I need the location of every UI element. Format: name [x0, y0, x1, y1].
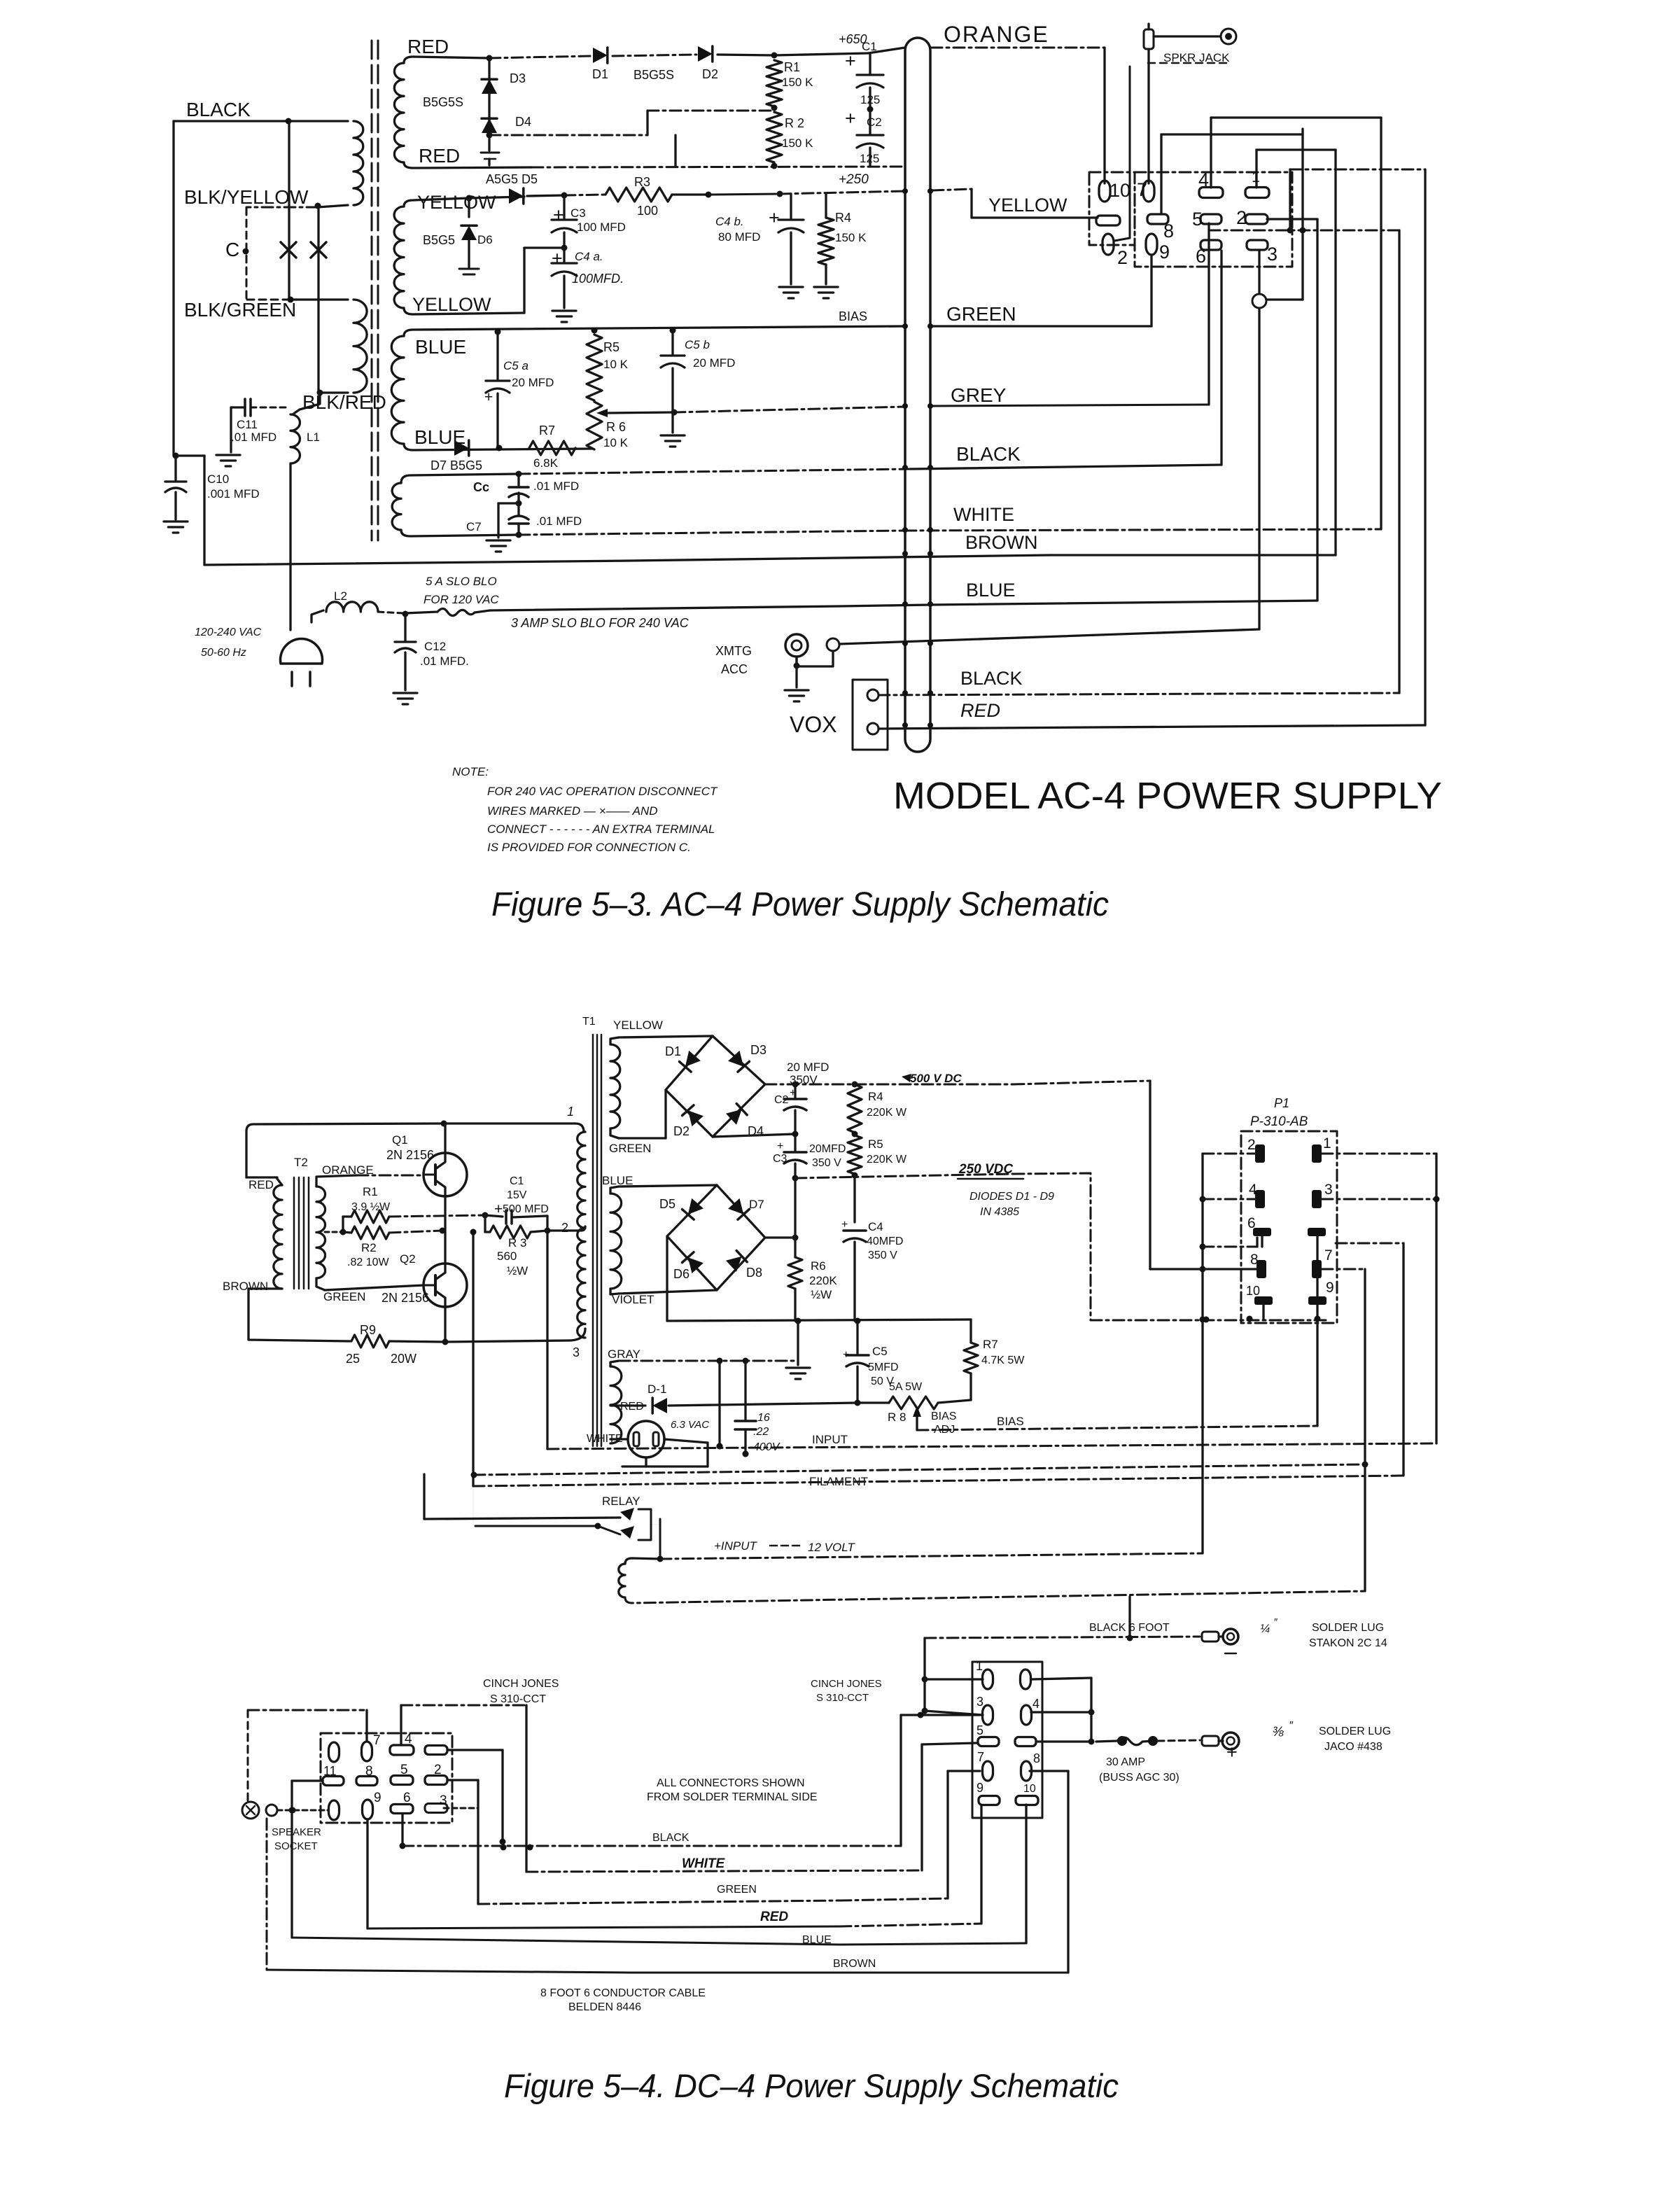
- svg-text:7: 7: [373, 1733, 381, 1748]
- svg-text:R3: R3: [634, 175, 650, 189]
- svg-text:BLUE: BLUE: [415, 336, 466, 358]
- svg-text:+250: +250: [839, 172, 869, 187]
- svg-text:220K W: 220K W: [867, 1154, 907, 1165]
- svg-text:C1: C1: [510, 1175, 524, 1187]
- svg-text:YELLOW: YELLOW: [412, 294, 491, 315]
- svg-text:8 FOOT 6 CONDUCTOR CABLE: 8 FOOT 6 CONDUCTOR CABLE: [540, 1987, 706, 1999]
- svg-text:1: 1: [1252, 169, 1260, 185]
- svg-text:SOLDER LUG: SOLDER LUG: [1312, 1622, 1384, 1634]
- svg-text:BLUE: BLUE: [966, 580, 1016, 601]
- svg-text:½W: ½W: [507, 1264, 528, 1277]
- svg-text:RED: RED: [248, 1178, 274, 1191]
- svg-text:3: 3: [440, 1793, 447, 1808]
- svg-text:.22: .22: [753, 1426, 769, 1438]
- svg-text:BELDEN 8446: BELDEN 8446: [568, 2001, 641, 2013]
- svg-text:R1: R1: [363, 1185, 378, 1198]
- svg-text:10 K: 10 K: [603, 358, 629, 371]
- svg-text:5: 5: [1192, 209, 1203, 230]
- svg-text:2: 2: [1236, 207, 1247, 228]
- svg-text:125: 125: [860, 93, 880, 106]
- svg-text:YELLOW: YELLOW: [417, 192, 496, 213]
- svg-text:3: 3: [976, 1695, 983, 1709]
- svg-text:R7: R7: [983, 1338, 998, 1351]
- svg-text:R1: R1: [784, 60, 800, 74]
- svg-text:RED: RED: [960, 700, 1000, 721]
- svg-text:R 6: R 6: [606, 420, 626, 434]
- svg-text:80 MFD: 80 MFD: [718, 230, 760, 244]
- svg-text:BLACK 6 FOOT: BLACK 6 FOOT: [1089, 1622, 1170, 1634]
- svg-text:IN 4385: IN 4385: [980, 1206, 1019, 1218]
- svg-text:350V: 350V: [790, 1073, 818, 1086]
- svg-text:D6: D6: [673, 1267, 689, 1281]
- svg-text:NOTE:: NOTE:: [452, 765, 489, 778]
- svg-text:½W: ½W: [811, 1288, 832, 1301]
- svg-text:1: 1: [1323, 1135, 1331, 1151]
- svg-text:6: 6: [1196, 246, 1206, 267]
- svg-text:D7: D7: [749, 1198, 764, 1211]
- svg-text:150 K: 150 K: [782, 76, 813, 89]
- svg-text:3: 3: [1324, 1182, 1333, 1198]
- svg-text:C3: C3: [570, 206, 586, 220]
- svg-text:T2: T2: [294, 1156, 308, 1169]
- svg-text:C4: C4: [868, 1220, 883, 1233]
- svg-text:D4: D4: [515, 115, 531, 129]
- svg-text:.82 10W: .82 10W: [347, 1256, 389, 1268]
- svg-text:RED: RED: [760, 1910, 788, 1924]
- svg-text:R7: R7: [539, 423, 555, 437]
- svg-text:16: 16: [757, 1412, 770, 1424]
- svg-text:XMTG: XMTG: [715, 644, 752, 658]
- svg-text:BROWN: BROWN: [833, 1958, 876, 1970]
- svg-text:9: 9: [374, 1791, 381, 1805]
- svg-text:7: 7: [1137, 179, 1147, 200]
- svg-text:B5G5: B5G5: [423, 233, 455, 247]
- svg-text:BLACK: BLACK: [960, 668, 1023, 689]
- svg-text:BROWN: BROWN: [965, 532, 1038, 553]
- svg-text:R2: R2: [361, 1241, 377, 1254]
- svg-text:125: 125: [860, 152, 879, 165]
- svg-text:T1: T1: [582, 1016, 596, 1028]
- svg-text:1: 1: [976, 1659, 983, 1673]
- svg-text:BLUE: BLUE: [802, 1934, 832, 1946]
- svg-text:+INPUT: +INPUT: [714, 1539, 758, 1553]
- svg-text:5A 5W: 5A 5W: [889, 1381, 923, 1393]
- svg-text:R4: R4: [868, 1090, 883, 1103]
- svg-text:R4: R4: [835, 211, 851, 225]
- svg-text:500 V DC: 500 V DC: [910, 1072, 962, 1085]
- svg-text:GREEN: GREEN: [717, 1884, 757, 1896]
- svg-text:2N 2156: 2N 2156: [386, 1148, 434, 1162]
- svg-text:C5 b: C5 b: [685, 338, 710, 351]
- svg-text:VIOLET: VIOLET: [612, 1293, 654, 1306]
- svg-text:D5: D5: [659, 1197, 675, 1211]
- svg-text:20MFD: 20MFD: [809, 1143, 846, 1155]
- svg-text:RED: RED: [407, 36, 449, 57]
- svg-text:4: 4: [1198, 169, 1209, 190]
- svg-text:R 8: R 8: [888, 1410, 906, 1424]
- svg-text:¼: ¼: [1260, 1622, 1270, 1635]
- svg-text:.01 MFD: .01 MFD: [533, 479, 579, 493]
- svg-text:R5: R5: [603, 340, 619, 354]
- svg-text:20 MFD: 20 MFD: [787, 1060, 829, 1074]
- svg-text:P1: P1: [1274, 1096, 1289, 1110]
- svg-text:3.9 ½W: 3.9 ½W: [351, 1201, 391, 1213]
- svg-text:RELAY: RELAY: [602, 1494, 640, 1508]
- svg-text:GREY: GREY: [951, 384, 1007, 406]
- svg-text:S 310-CCT: S 310-CCT: [490, 1693, 546, 1705]
- svg-text:SOCKET: SOCKET: [274, 1840, 318, 1852]
- svg-text:20 MFD: 20 MFD: [693, 356, 735, 370]
- svg-text:.01 MFD: .01 MFD: [231, 430, 276, 444]
- svg-text:CINCH JONES: CINCH JONES: [811, 1678, 882, 1690]
- svg-text:ALL CONNECTORS SHOWN: ALL CONNECTORS SHOWN: [657, 1777, 805, 1789]
- svg-text:CINCH JONES: CINCH JONES: [483, 1678, 559, 1690]
- svg-text:D7 B5G5: D7 B5G5: [430, 458, 482, 472]
- svg-text:9: 9: [976, 1781, 983, 1795]
- svg-text:R6: R6: [811, 1259, 826, 1273]
- svg-text:.001 MFD: .001 MFD: [207, 487, 260, 500]
- svg-text:L2: L2: [334, 589, 347, 603]
- svg-text:4: 4: [1249, 1182, 1257, 1198]
- svg-text:ORANGE: ORANGE: [944, 22, 1049, 47]
- svg-text:6.3 VAC: 6.3 VAC: [671, 1419, 709, 1431]
- svg-text:250 VDC: 250 VDC: [958, 1162, 1013, 1177]
- svg-text:4: 4: [1032, 1697, 1039, 1711]
- svg-text:1: 1: [567, 1105, 574, 1119]
- svg-text:8: 8: [1163, 220, 1174, 241]
- svg-text:15V: 15V: [507, 1189, 527, 1201]
- svg-text:2: 2: [561, 1221, 568, 1235]
- svg-text:SOLDER LUG: SOLDER LUG: [1319, 1725, 1391, 1737]
- svg-text:BROWN: BROWN: [223, 1280, 268, 1293]
- svg-text:+: +: [841, 1219, 848, 1231]
- svg-text:+: +: [552, 248, 563, 269]
- svg-text:C4 a.: C4 a.: [575, 250, 603, 263]
- svg-text:10: 10: [1023, 1783, 1036, 1795]
- svg-text:350 V: 350 V: [812, 1157, 841, 1169]
- svg-text:″: ″: [1274, 1616, 1278, 1628]
- svg-text:INPUT: INPUT: [812, 1433, 848, 1446]
- svg-text:+: +: [845, 108, 856, 129]
- svg-text:D2: D2: [673, 1124, 689, 1138]
- svg-text:R9: R9: [360, 1323, 376, 1337]
- svg-text:C2: C2: [867, 115, 882, 129]
- svg-text:9: 9: [1159, 241, 1170, 262]
- svg-text:R 2: R 2: [785, 116, 804, 130]
- svg-text:8: 8: [1033, 1751, 1040, 1765]
- svg-text:+: +: [484, 389, 493, 405]
- svg-text:6: 6: [403, 1791, 411, 1805]
- svg-text:11: 11: [323, 1764, 337, 1778]
- svg-text:500 MFD: 500 MFD: [503, 1203, 549, 1215]
- svg-text:BLUE: BLUE: [602, 1174, 633, 1187]
- svg-text:YELLOW: YELLOW: [988, 195, 1067, 216]
- svg-text:560: 560: [497, 1249, 517, 1263]
- svg-text:(BUSS AGC 30): (BUSS AGC 30): [1099, 1772, 1179, 1784]
- svg-text:SPEAKER: SPEAKER: [272, 1826, 321, 1838]
- svg-text:+: +: [1226, 1742, 1238, 1763]
- svg-text:220K: 220K: [809, 1274, 837, 1287]
- svg-text:B5G5S: B5G5S: [423, 95, 463, 109]
- svg-text:B5G5S: B5G5S: [633, 68, 674, 82]
- svg-text:FOR 240 VAC OPERATION DISC: FOR 240 VAC OPERATION DISCONNECT: [487, 785, 718, 798]
- svg-text:3 AMP SLO BLO FOR 240 VA: 3 AMP SLO BLO FOR 240 VAC: [511, 616, 689, 630]
- svg-text:BIAS: BIAS: [997, 1415, 1024, 1428]
- svg-text:C10: C10: [207, 472, 229, 486]
- svg-text:WHITE: WHITE: [682, 1856, 726, 1871]
- svg-text:BLACK: BLACK: [186, 99, 251, 120]
- svg-text:CONNECT - - - - - - AN EXTRA: CONNECT - - - - - - AN EXTRA TERMINAL: [487, 822, 715, 836]
- svg-text:R 3: R 3: [508, 1236, 526, 1249]
- svg-text:A5G5 D5: A5G5 D5: [486, 172, 538, 186]
- svg-text:7: 7: [1324, 1247, 1333, 1263]
- svg-text:5: 5: [976, 1723, 983, 1737]
- svg-text:100: 100: [637, 204, 658, 218]
- svg-text:R5: R5: [868, 1137, 883, 1151]
- svg-text:C4 b.: C4 b.: [715, 215, 744, 228]
- svg-text:+650: +650: [839, 32, 867, 46]
- svg-text:L1: L1: [307, 430, 320, 444]
- svg-text:DIODES D1 - D9: DIODES D1 - D9: [969, 1191, 1054, 1203]
- svg-text:D3: D3: [510, 71, 526, 85]
- svg-text:Q1: Q1: [392, 1133, 408, 1147]
- svg-text:P-310-AB: P-310-AB: [1250, 1114, 1308, 1129]
- svg-text:MODEL AC-4 POWER SUPPLY: MODEL AC-4 POWER SUPPLY: [893, 775, 1442, 817]
- svg-text:5 A SLO BLO: 5 A SLO BLO: [426, 575, 497, 588]
- svg-text:6: 6: [1247, 1215, 1256, 1231]
- svg-text:2: 2: [434, 1763, 442, 1777]
- svg-text:Q2: Q2: [400, 1252, 416, 1266]
- svg-text:100 MFD: 100 MFD: [577, 220, 626, 234]
- svg-text:C5 a: C5 a: [503, 359, 528, 372]
- svg-text:2: 2: [1117, 247, 1128, 268]
- svg-text:150 K: 150 K: [835, 231, 867, 244]
- svg-text:″: ″: [1289, 1720, 1294, 1732]
- svg-text:40MFD: 40MFD: [867, 1235, 903, 1247]
- svg-text:12 VOLT: 12 VOLT: [808, 1541, 855, 1554]
- svg-text:50-60 Hz: 50-60 Hz: [201, 647, 246, 659]
- svg-text:6.8K: 6.8K: [533, 456, 559, 470]
- svg-text:WHITE: WHITE: [953, 504, 1014, 525]
- svg-text:D1: D1: [665, 1044, 681, 1058]
- svg-text:D-1: D-1: [647, 1382, 666, 1396]
- svg-text:RED: RED: [419, 145, 460, 167]
- svg-text:JACO #438: JACO #438: [1324, 1741, 1382, 1753]
- svg-text:25: 25: [346, 1352, 360, 1366]
- svg-text:8: 8: [1250, 1252, 1259, 1268]
- svg-text:FROM SOLDER TERMINAL SIDE: FROM SOLDER TERMINAL SIDE: [647, 1791, 818, 1803]
- svg-text:IS PROVIDED FOR CONNECTION: IS PROVIDED FOR CONNECTION C.: [487, 841, 691, 854]
- svg-text:WIRES MARKED — ×—— AND: WIRES MARKED — ×—— AND: [487, 804, 658, 818]
- svg-text:GREEN: GREEN: [609, 1142, 651, 1155]
- svg-text:10 K: 10 K: [603, 436, 629, 449]
- svg-text:5MFD: 5MFD: [868, 1361, 899, 1373]
- svg-text:YELLOW: YELLOW: [613, 1018, 663, 1032]
- svg-text:30 AMP: 30 AMP: [1106, 1756, 1145, 1768]
- svg-text:350 V: 350 V: [868, 1249, 897, 1261]
- svg-text:BIAS: BIAS: [931, 1410, 956, 1422]
- svg-text:GRAY: GRAY: [608, 1347, 640, 1361]
- svg-text:100MFD.: 100MFD.: [572, 272, 624, 286]
- svg-text:+: +: [777, 1140, 783, 1152]
- svg-text:D1: D1: [592, 67, 608, 81]
- svg-text:+: +: [553, 204, 564, 225]
- svg-text:4: 4: [405, 1732, 412, 1746]
- svg-text:10: 10: [1109, 180, 1130, 201]
- svg-text:.01 MFD.: .01 MFD.: [420, 654, 469, 668]
- svg-text:D3: D3: [750, 1043, 766, 1057]
- svg-text:BLK/RED: BLK/RED: [302, 391, 386, 413]
- svg-text:BLK/GREEN: BLK/GREEN: [184, 299, 296, 321]
- svg-text:+: +: [769, 207, 780, 228]
- svg-text:.01 MFD: .01 MFD: [536, 514, 582, 528]
- svg-text:FOR 120 VAC: FOR 120 VAC: [423, 593, 499, 606]
- svg-text:Figure 5–3. AC–4 Power Supp: Figure 5–3. AC–4 Power Supply Schematic: [491, 886, 1109, 923]
- svg-text:C12: C12: [424, 640, 446, 653]
- svg-text:S 310-CCT: S 310-CCT: [816, 1692, 869, 1704]
- svg-text:D6: D6: [477, 233, 493, 246]
- svg-text:GREEN: GREEN: [323, 1290, 365, 1303]
- svg-text:20W: 20W: [391, 1352, 416, 1366]
- svg-text:Figure 5–4. DC–4 Power Supp: Figure 5–4. DC–4 Power Supply Schematic: [504, 2067, 1119, 2104]
- svg-text:150 K: 150 K: [782, 136, 813, 150]
- svg-text:C11: C11: [237, 418, 258, 431]
- svg-text:2: 2: [1247, 1137, 1256, 1153]
- svg-text:10: 10: [1246, 1284, 1260, 1298]
- svg-text:D8: D8: [746, 1266, 762, 1280]
- svg-text:⅜: ⅜: [1273, 1725, 1284, 1739]
- svg-text:9: 9: [1326, 1280, 1334, 1296]
- svg-text:D2: D2: [702, 67, 718, 81]
- svg-text:BLACK: BLACK: [652, 1832, 689, 1844]
- svg-text:VOX: VOX: [790, 712, 837, 737]
- svg-text:GREEN: GREEN: [946, 303, 1016, 325]
- svg-text:ACC: ACC: [721, 662, 748, 676]
- svg-text:3: 3: [1267, 244, 1277, 265]
- svg-text:4.7K 5W: 4.7K 5W: [981, 1354, 1025, 1366]
- svg-text:5: 5: [400, 1763, 408, 1777]
- svg-text:8: 8: [365, 1764, 373, 1779]
- svg-text:3: 3: [573, 1345, 580, 1359]
- svg-text:C7: C7: [466, 520, 482, 533]
- svg-text:STAKON 2C 14: STAKON 2C 14: [1309, 1637, 1387, 1649]
- svg-text:Cc: Cc: [473, 480, 489, 494]
- svg-text:20 MFD: 20 MFD: [512, 376, 554, 389]
- svg-text:C5: C5: [872, 1345, 888, 1358]
- svg-text:2N 2156: 2N 2156: [381, 1291, 429, 1305]
- svg-text:220K W: 220K W: [867, 1107, 907, 1119]
- svg-text:C: C: [225, 239, 239, 260]
- svg-text:BLACK: BLACK: [956, 443, 1021, 465]
- svg-text:BIAS: BIAS: [839, 309, 867, 323]
- svg-text:7: 7: [977, 1750, 984, 1764]
- svg-text:+: +: [845, 50, 856, 71]
- svg-text:120-240 VAC: 120-240 VAC: [195, 626, 262, 638]
